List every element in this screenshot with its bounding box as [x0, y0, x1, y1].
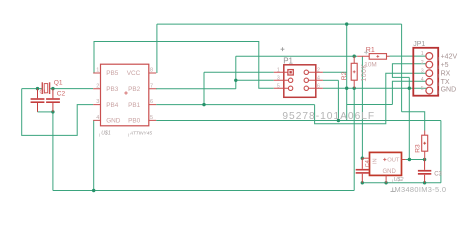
wire plus5 jog	[392, 64, 425, 78]
svg-text:U$1: U$1	[101, 130, 111, 136]
wire TX drop	[392, 81, 425, 104]
U1 left pin stubs 1-4	[93, 73, 100, 120]
U2 IN pin stub	[362, 157, 369, 159]
svg-text:ȷ: ȷ	[437, 81, 439, 86]
U1 right pin stubs 8,7,6,5	[149, 73, 157, 120]
resistor R1	[357, 54, 389, 60]
connector P1 box	[274, 65, 323, 98]
junction C3 bottom on U2 rail	[423, 181, 426, 184]
junction PB1 row	[202, 103, 205, 106]
wire crystal right to PB3	[50, 88, 93, 90]
resistor R2	[351, 56, 357, 88]
svg-text:3: 3	[421, 68, 424, 74]
wire mid row	[347, 104, 393, 106]
wire PB0 down right	[440, 121, 442, 183]
svg-text:PB2: PB2	[128, 86, 141, 93]
wire PB2 row	[156, 88, 236, 90]
P1 pin 6	[304, 86, 308, 90]
wire R2 bottom to rail	[353, 88, 355, 190]
junction GND row riser	[408, 87, 411, 90]
svg-text:4: 4	[317, 75, 320, 81]
wire crystal left	[22, 88, 42, 90]
P1 pin 1 square pad	[288, 70, 293, 75]
wire R1 right to JP1 pin1	[390, 55, 426, 57]
svg-text:ȷ: ȷ	[437, 72, 439, 77]
svg-text:5: 5	[277, 83, 280, 89]
svg-text:2: 2	[317, 67, 320, 73]
wire divider row to R1	[236, 55, 357, 57]
wire caps bottom down	[52, 112, 54, 191]
U2 OUT pin stub	[402, 159, 406, 161]
wire IC GND down	[93, 120, 95, 190]
P1 pin 5	[288, 86, 292, 90]
IC U1 ATTINY45 body	[101, 64, 149, 126]
junction R2 top / R1 left	[353, 55, 356, 58]
wire P1 pin1 row	[204, 71, 274, 73]
junction VCC top rail	[345, 22, 348, 25]
junction U2 GND pin on rail	[384, 181, 387, 184]
svg-text:C4: C4	[365, 160, 371, 167]
JP1 pin numbers	[421, 51, 424, 92]
svg-text:C3: C3	[434, 172, 442, 178]
junction U2 OUT	[408, 158, 411, 161]
svg-text:1: 1	[277, 67, 280, 73]
wire PB2 stub wire	[155, 88, 158, 90]
P1 pin numbers	[277, 67, 320, 89]
svg-text:+42V: +42V	[441, 53, 458, 60]
svg-text:GND: GND	[106, 118, 121, 125]
U2 origin cross	[383, 158, 386, 161]
wire GND bottom rail	[53, 190, 354, 192]
svg-text:1: 1	[421, 51, 424, 57]
JP1 pin 5	[426, 87, 433, 94]
JP1 pin 1	[426, 53, 433, 60]
capacitor C3	[418, 160, 431, 183]
capacitor C4	[356, 158, 369, 183]
svg-text:95278-101A06LF: 95278-101A06LF	[282, 111, 375, 122]
JP1 pin 3	[426, 70, 433, 77]
wire PB1 to RX jog	[315, 73, 426, 124]
junction R2 bottom on GND row	[353, 87, 356, 90]
JP1 pin names +42V +5 RX TX GND	[437, 53, 457, 94]
U1 pin numbers	[96, 68, 153, 121]
junction IC GND at rail	[92, 189, 95, 192]
svg-text:2: 2	[96, 83, 99, 89]
wire caps bottom join	[38, 111, 53, 113]
wire PB0 row	[156, 120, 441, 122]
P1 pin 3	[288, 78, 292, 82]
svg-text:PB3: PB3	[106, 86, 119, 93]
capacitor C2	[46, 89, 60, 112]
U1 pin names	[106, 70, 140, 124]
U1 origin cross	[124, 91, 128, 95]
wire OUT row	[406, 159, 425, 161]
svg-text:2: 2	[421, 60, 424, 66]
P1 pin 4	[304, 78, 308, 82]
wire U2 ground rail	[362, 182, 441, 184]
JP1 pin 4	[426, 79, 433, 86]
junction caps bottom	[51, 110, 54, 113]
svg-text:R2: R2	[341, 71, 348, 80]
svg-text:IN: IN	[373, 158, 379, 164]
svg-text:M3480IM3-5.0: M3480IM3-5.0	[395, 185, 447, 194]
wire crystal left to PB4	[22, 89, 94, 136]
wire IN riser	[361, 56, 363, 158]
svg-text:Q1: Q1	[54, 79, 63, 86]
svg-text:ȷ: ȷ	[437, 64, 439, 69]
junction P1 pin3 row	[234, 79, 237, 82]
wire RESET top	[94, 42, 274, 89]
junction mid riser on GND row	[345, 87, 348, 90]
capacitor C1	[31, 89, 45, 112]
wire mid riser	[346, 24, 348, 120]
P1 right pin stubs 2,4,6	[308, 72, 323, 88]
svg-text:P1: P1	[283, 57, 293, 66]
wire P1 pin4 down to PB0	[337, 80, 339, 120]
junction R3 bottom / C3 top	[423, 158, 426, 161]
svg-text:ȷ: ȷ	[437, 89, 439, 94]
svg-text:PB4: PB4	[106, 102, 119, 109]
svg-text:ATTINY45: ATTINY45	[129, 130, 152, 136]
svg-text:6: 6	[317, 83, 320, 89]
svg-text:PB0: PB0	[128, 118, 141, 125]
svg-text:1: 1	[96, 68, 99, 74]
wire P1 pin2 branch	[323, 71, 347, 73]
wire P1 pin4 branch	[323, 79, 339, 81]
U2 GND pin stub	[385, 175, 387, 183]
P1 origin cross	[281, 47, 285, 51]
resistor R3	[422, 131, 428, 160]
svg-text:ȷ: ȷ	[127, 131, 129, 136]
regulator U2 LM3480 box	[362, 152, 405, 183]
svg-text:VCC: VCC	[127, 70, 141, 77]
wire PB1 row	[156, 104, 314, 106]
wire to R3 top	[402, 112, 425, 131]
svg-text:3: 3	[277, 75, 280, 81]
svg-text:GND: GND	[441, 87, 457, 94]
svg-text:RX: RX	[441, 70, 451, 77]
junction C1 top on crystal wire	[36, 87, 39, 90]
junction C2 top on crystal wire	[51, 87, 54, 90]
wire VCC top rail	[157, 23, 402, 25]
svg-text:GND: GND	[383, 169, 397, 175]
svg-text:PB1: PB1	[128, 102, 141, 109]
svg-text:6: 6	[150, 99, 153, 105]
svg-text:4: 4	[96, 115, 99, 121]
wire VCC down right	[401, 24, 403, 112]
svg-text:5: 5	[421, 86, 424, 92]
P1 pin 2	[304, 70, 308, 74]
wire P1 pin1 down to PB1	[203, 72, 205, 104]
svg-text:C1: C1	[40, 90, 47, 96]
wire OUT riser	[408, 77, 410, 159]
JP1 pin 2	[426, 61, 433, 68]
svg-text:ȷ: ȷ	[391, 178, 393, 183]
wire PB2 riser to divider	[235, 56, 237, 89]
connector JP1 box	[413, 48, 438, 96]
svg-text:8: 8	[150, 68, 153, 74]
svg-text:5: 5	[150, 115, 153, 121]
wire GND row	[323, 87, 426, 89]
svg-text:7: 7	[150, 83, 153, 89]
svg-text:OUT: OUT	[387, 158, 400, 164]
svg-text:U$2: U$2	[394, 177, 404, 183]
wire IC pin8 VCC riser	[156, 24, 158, 73]
junction C4 bottom on U2 rail	[361, 181, 364, 184]
svg-text:R3: R3	[415, 144, 422, 153]
svg-text:4: 4	[421, 77, 424, 83]
svg-text:PB5: PB5	[106, 70, 119, 77]
svg-text:ȷ: ȷ	[437, 55, 439, 60]
svg-text:C2: C2	[57, 91, 66, 98]
svg-text:ȷ: ȷ	[98, 131, 100, 136]
svg-text:R1: R1	[366, 47, 375, 54]
junction PB0 row	[337, 119, 340, 122]
R1 gray origin cross	[364, 50, 368, 54]
P1 left pin stubs 1,3,5	[274, 72, 289, 88]
wire P1 pin3 row	[236, 79, 274, 81]
svg-text:3: 3	[96, 99, 99, 105]
junction U2 IN / C4 top	[361, 157, 364, 160]
svg-text:100K: 100K	[361, 64, 368, 82]
svg-text:TX: TX	[441, 79, 450, 86]
crystal Q1	[42, 82, 49, 94]
svg-text:JP1: JP1	[413, 41, 425, 48]
svg-text:+5: +5	[441, 62, 449, 69]
